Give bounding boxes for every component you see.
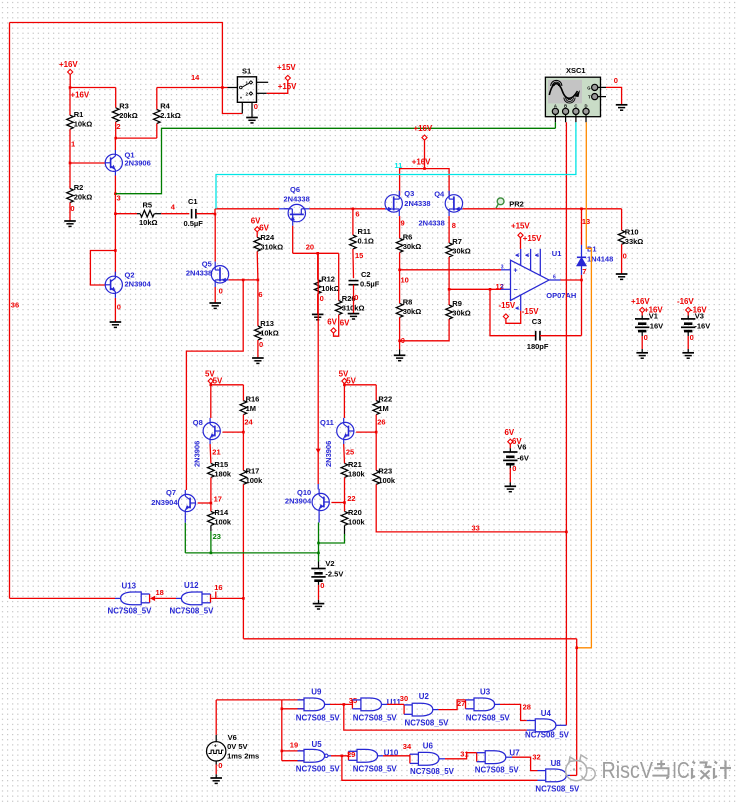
gate U4 input stubs	[527, 720, 536, 722]
resistor R13 10k	[255, 326, 262, 340]
gate U13 NC7S08 flipped	[121, 592, 142, 605]
U12 output wire	[176, 597, 181, 599]
svg-text:0: 0	[690, 333, 694, 342]
wire R22 to node 26	[375, 415, 377, 471]
wire node up to bus	[214, 209, 216, 214]
svg-text:6: 6	[355, 209, 359, 218]
scope terminal B	[563, 108, 569, 114]
svg-text:100k: 100k	[378, 476, 396, 485]
resistor R17 100k	[240, 470, 247, 484]
svg-text:XSC1: XSC1	[566, 66, 586, 75]
svg-text:NC7S00_5V: NC7S00_5V	[296, 764, 341, 773]
svg-text:3: 3	[501, 264, 504, 270]
svg-text:R17: R17	[246, 467, 260, 476]
wire R4 bottom	[156, 124, 158, 139]
ground below R13	[252, 357, 264, 359]
svg-text:+16V: +16V	[59, 60, 78, 69]
svg-text:C1: C1	[188, 197, 198, 206]
resistor R7 30k	[446, 243, 453, 257]
svg-text:14: 14	[191, 73, 200, 82]
diode D1 1N4148	[581, 209, 583, 245]
wire opamp pin2	[449, 288, 501, 290]
wire R5 to C1	[161, 213, 189, 215]
svg-text:R20: R20	[348, 508, 362, 517]
svg-text:0.5µF: 0.5µF	[184, 219, 204, 228]
svg-text:T: T	[588, 95, 591, 100]
wire Q6 source to Q3 gate bus	[310, 208, 386, 210]
wire R26 bottom to 6V hook	[334, 315, 339, 337]
wire Q6 gate down	[292, 226, 294, 254]
svg-text:Q4: Q4	[434, 189, 445, 198]
wire R8 to ground node	[399, 317, 401, 349]
wire Q1 emitter down to Q2	[114, 176, 116, 277]
svg-text:9: 9	[401, 219, 405, 228]
transistor Q3 2N4338	[385, 195, 402, 212]
svg-text:6: 6	[258, 290, 262, 299]
wire Q11 base to node 26	[356, 431, 376, 433]
svg-text:-15V: -15V	[522, 307, 539, 316]
svg-text:1ms 2ms: 1ms 2ms	[227, 751, 259, 760]
ground below V1	[636, 352, 648, 354]
svg-text:2: 2	[501, 284, 504, 290]
wire +16V to R3	[70, 87, 116, 89]
wire net 20 to R26	[338, 253, 340, 300]
svg-text:100k: 100k	[246, 476, 264, 485]
svg-text:NC7S08_5V: NC7S08_5V	[475, 765, 520, 774]
scope sine wave	[549, 84, 577, 99]
gate U5 inputs	[282, 750, 304, 752]
wire +15V to op-amp	[520, 238, 522, 249]
svg-text:0: 0	[644, 333, 648, 342]
wire node down to Q5 drain	[214, 214, 216, 262]
wire feedback top row	[344, 704, 527, 730]
svg-text:R22: R22	[378, 395, 392, 404]
transistor Q5 2N4338 mirrored	[211, 266, 228, 283]
wire V6 to gate inputs	[216, 699, 282, 701]
svg-text:180pF: 180pF	[527, 342, 549, 351]
battery V2 -2.5V	[318, 562, 320, 569]
transistor Q11 2N3906 mirrored	[337, 422, 354, 439]
svg-text:10: 10	[401, 275, 409, 284]
wire R21 to node 22	[344, 477, 346, 511]
svg-text:R13: R13	[260, 319, 274, 328]
svg-text:A: A	[554, 103, 557, 108]
svg-text:R12: R12	[321, 274, 335, 283]
scope terminal T	[592, 94, 598, 100]
svg-text:Q2: Q2	[125, 271, 135, 280]
arrow on Q10 collector wire	[316, 449, 321, 454]
transistor Q6 2N4338 rotated	[279, 208, 288, 210]
svg-text:OP07AH: OP07AH	[546, 291, 576, 300]
probe PR2	[497, 198, 504, 205]
gate U8 NC7S08	[546, 769, 567, 782]
U13 input split	[149, 594, 151, 603]
resistor R1 10k	[67, 115, 74, 129]
resistor R4 2.1k	[154, 110, 161, 124]
ground below V3	[682, 352, 694, 354]
wire V2 to ground	[318, 581, 320, 585]
svg-text:100k: 100k	[214, 518, 232, 527]
svg-text:NC7S08_5V: NC7S08_5V	[405, 719, 450, 728]
svg-text:0: 0	[259, 340, 263, 349]
resistor R12 10k	[317, 253, 319, 279]
ground below Q2	[110, 321, 122, 323]
wire net 8 Q4 source to R7	[448, 216, 450, 243]
wire output down to C3	[581, 280, 583, 336]
svg-text:16: 16	[214, 583, 222, 592]
gate U2 split	[403, 705, 405, 714]
svg-text:Q3: Q3	[404, 189, 414, 198]
svg-text:-16V: -16V	[694, 321, 710, 330]
watermark glyph yu	[653, 760, 669, 778]
wire net 20 horizontal	[293, 252, 339, 254]
wire net 9 Q3 source to R6	[399, 216, 401, 238]
wire R17 chain bottom loop	[243, 638, 576, 640]
wire V6 to ground	[215, 761, 217, 765]
svg-text:U7: U7	[509, 748, 520, 757]
svg-text:0: 0	[254, 102, 258, 111]
svg-text:R10: R10	[625, 228, 639, 237]
ground below R2	[64, 220, 76, 222]
pulse source V6	[215, 700, 217, 735]
ground below Q5	[209, 302, 221, 304]
resistor R22 1M	[375, 385, 377, 401]
watermark logo	[566, 755, 596, 781]
wire U3 out to U4	[495, 703, 500, 705]
svg-text:6V: 6V	[259, 223, 269, 232]
svg-text:10kΩ: 10kΩ	[139, 218, 158, 227]
gate U6 NC7S08	[418, 752, 439, 765]
svg-text:NC7S08_5V: NC7S08_5V	[525, 731, 570, 740]
svg-text:2N4338: 2N4338	[419, 218, 445, 227]
wire U5 out to U10	[328, 755, 331, 757]
svg-text:+15V: +15V	[278, 82, 297, 91]
S1 pin1 stub	[257, 81, 269, 83]
svg-text:2N3906: 2N3906	[324, 441, 333, 467]
wire Q11 collector to R21	[343, 444, 346, 463]
svg-text:6V: 6V	[327, 318, 337, 327]
resistor R3 20k	[112, 108, 119, 122]
gate U9 NC7S08	[282, 699, 304, 701]
wire bus to Q6	[215, 208, 279, 210]
svg-text:U12: U12	[184, 581, 199, 590]
svg-text:C: C	[574, 103, 577, 108]
wire R15 to node 17	[210, 477, 212, 511]
gate U11 NC7S08	[361, 698, 382, 711]
svg-text:0V 5V: 0V 5V	[227, 742, 247, 751]
resistor R2 20k	[67, 189, 74, 203]
scope terminal D	[583, 108, 589, 114]
wire R14 to green	[210, 525, 212, 531]
wire green rail	[185, 552, 318, 554]
svg-text:33: 33	[472, 523, 480, 532]
svg-text:V6: V6	[228, 733, 237, 742]
svg-text:C2: C2	[361, 270, 371, 279]
svg-text:NC7S08_5V: NC7S08_5V	[296, 714, 341, 723]
gate U3 NC7S08	[474, 698, 495, 711]
wire to ground	[509, 464, 511, 468]
svg-text:+16V: +16V	[71, 90, 90, 99]
svg-text:R14: R14	[214, 508, 229, 517]
wire Q5 source to ground	[214, 287, 216, 303]
svg-text:5V: 5V	[213, 376, 223, 385]
scope pin D	[585, 115, 587, 123]
svg-text:+16V: +16V	[412, 158, 431, 167]
wire scope B down to U4 output	[565, 122, 567, 725]
wire R7 to R9	[448, 257, 450, 305]
wire node to R4 bottom	[116, 137, 157, 139]
svg-text:32: 32	[532, 753, 540, 762]
svg-text:R8: R8	[403, 298, 413, 307]
svg-text:-6V: -6V	[517, 453, 529, 462]
svg-text:NC7S08_5V: NC7S08_5V	[170, 606, 215, 615]
scope G wire to ground	[598, 86, 606, 88]
svg-text:10kΩ: 10kΩ	[321, 284, 340, 293]
U13 output wire to net 36	[115, 597, 121, 599]
watermark glyph she	[692, 762, 712, 780]
transistor Q2 2N3904	[105, 276, 122, 293]
ground below R12	[312, 313, 324, 315]
svg-text:2: 2	[116, 122, 120, 131]
svg-text:10kΩ: 10kΩ	[260, 328, 279, 337]
wire net 36 left vertical	[9, 23, 11, 599]
wire Q1 base	[70, 162, 105, 164]
wire R13 to ground	[257, 340, 259, 358]
ground below 6V source	[505, 485, 517, 487]
gate U7 split	[476, 753, 478, 762]
resistor R9 30k	[446, 305, 453, 319]
svg-text:U2: U2	[419, 692, 430, 701]
svg-text:0: 0	[117, 302, 121, 311]
svg-text:-15V: -15V	[499, 301, 516, 310]
op-amp U1 OP07AH	[511, 260, 550, 300]
wire U8 output	[566, 774, 570, 776]
svg-text:IC: IC	[672, 757, 690, 783]
svg-text:180k: 180k	[214, 470, 232, 479]
resistor R24 310k	[256, 232, 258, 237]
svg-text:17: 17	[214, 495, 222, 504]
scope pin C	[575, 115, 577, 123]
wire Q4 gate from bus	[463, 208, 496, 210]
wire opamp pin3	[400, 269, 501, 271]
svg-text:20kΩ: 20kΩ	[119, 111, 138, 120]
svg-text:Q5: Q5	[202, 260, 212, 269]
wire R24 to R13	[256, 251, 259, 280]
svg-text:*: *	[240, 97, 242, 103]
svg-text:R15: R15	[214, 460, 228, 469]
wire S1 pin2 to +15V	[267, 81, 288, 94]
svg-text:8: 8	[452, 221, 456, 230]
resistor R16 1M	[242, 385, 244, 401]
wire R6 to R8	[399, 252, 401, 303]
wire R5 from emitter node	[115, 213, 137, 215]
gate U7 NC7S08	[485, 751, 506, 764]
svg-text:NC7S08_5V: NC7S08_5V	[466, 714, 511, 723]
ground below C2	[348, 313, 360, 315]
svg-text:30kΩ: 30kΩ	[403, 307, 422, 316]
svg-text:2N3904: 2N3904	[151, 498, 178, 507]
svg-text:R4: R4	[160, 101, 170, 110]
op-amp output pin	[549, 279, 561, 281]
svg-text:2: 2	[246, 92, 249, 97]
wire 5V node to R22 and Q11	[343, 384, 345, 385]
wire bus PR2 to R10 corner	[496, 208, 622, 210]
svg-text:36: 36	[11, 301, 19, 310]
wire R1 to R2 with base tap	[69, 129, 71, 188]
wire U10 out to U6	[378, 755, 383, 757]
svg-text:31: 31	[460, 749, 468, 758]
svg-text:D: D	[585, 103, 588, 108]
wire Q10 collector pin	[317, 484, 319, 489]
svg-text:2N3906: 2N3906	[125, 158, 151, 167]
svg-text:5V: 5V	[346, 376, 356, 385]
S1 bottom-right pin	[251, 102, 253, 117]
svg-text:1M: 1M	[246, 404, 256, 413]
wire C3 right	[540, 335, 582, 337]
svg-text:Q7: Q7	[166, 488, 176, 497]
wire V3 to ground	[687, 331, 689, 336]
svg-text:U4: U4	[541, 709, 552, 718]
gate U10 NC7S08	[357, 749, 378, 762]
svg-text:R7: R7	[452, 237, 462, 246]
wire R16 to node 24	[242, 415, 244, 471]
svg-text:V3: V3	[695, 312, 704, 321]
resistor R8 30k	[396, 303, 403, 317]
svg-text:R11: R11	[358, 227, 371, 236]
scope T stub	[598, 96, 606, 98]
svg-text:2N3904: 2N3904	[285, 496, 312, 505]
gate U10 split	[348, 751, 350, 760]
svg-text:27: 27	[457, 699, 465, 708]
resistor R15 180k	[208, 463, 215, 477]
svg-text:2N4338: 2N4338	[284, 194, 310, 203]
svg-text:NC7S08_5V: NC7S08_5V	[353, 714, 398, 723]
wire R8 R9 bottom link	[400, 319, 450, 341]
wire down to U8 output	[576, 639, 578, 776]
wire Q10 collector up to net 20	[317, 253, 319, 484]
wire Q5 gate to node	[229, 279, 258, 281]
svg-text:1: 1	[246, 81, 249, 86]
svg-text:30kΩ: 30kΩ	[452, 309, 471, 318]
svg-text:R9: R9	[452, 299, 462, 308]
resistor R26 310k	[335, 301, 342, 315]
svg-text:33kΩ: 33kΩ	[625, 237, 644, 246]
svg-text:20kΩ: 20kΩ	[74, 193, 93, 202]
svg-text:NC7S08_5V: NC7S08_5V	[535, 784, 580, 793]
wire Q1 collector	[114, 138, 116, 150]
wire U6 out to U7	[439, 758, 445, 760]
wire cyan scope C	[216, 122, 576, 209]
ground below S1	[246, 117, 258, 119]
arrow into U13 inputs	[150, 596, 155, 601]
gate U11 split	[351, 700, 353, 709]
svg-text:U3: U3	[480, 688, 491, 697]
wire -15V hook	[506, 311, 521, 323]
resistor R11 0.1ohm	[352, 209, 354, 235]
svg-text:NC7S08_5V: NC7S08_5V	[410, 767, 455, 776]
scope pin A	[554, 115, 556, 123]
svg-text:Q11: Q11	[320, 418, 334, 427]
svg-text:2N3904: 2N3904	[125, 280, 152, 289]
wire Q2 base jog	[90, 251, 115, 286]
wire U4 output	[556, 724, 567, 726]
S1 pin2 stub	[257, 92, 267, 94]
svg-text:7: 7	[582, 267, 586, 276]
svg-text:R16: R16	[246, 395, 260, 404]
svg-text:16V: 16V	[650, 321, 663, 330]
wire R11 to C2	[352, 249, 355, 278]
svg-text:-2.5V: -2.5V	[325, 570, 343, 579]
svg-text:2N3906: 2N3906	[193, 441, 202, 467]
wire Q8 collector to R15	[209, 444, 212, 463]
transistor Q8 2N3906 mirrored	[203, 422, 220, 439]
svg-text:+16V: +16V	[414, 124, 433, 133]
svg-text:U1: U1	[552, 249, 562, 258]
wire Q7 emitter green	[184, 516, 186, 523]
battery V3 -16V	[687, 313, 689, 316]
svg-text:0: 0	[219, 286, 223, 295]
svg-text:0: 0	[70, 204, 74, 213]
svg-text:+15V: +15V	[511, 221, 530, 230]
wire R10 to ground	[621, 244, 623, 274]
svg-text:0: 0	[218, 761, 222, 770]
svg-text:0: 0	[354, 293, 358, 302]
svg-text:11: 11	[394, 161, 402, 170]
svg-text:NC7S08_5V: NC7S08_5V	[353, 764, 398, 773]
wire 5V node to R16 and Q8	[210, 384, 212, 385]
wire C3 to pin2 node	[490, 289, 536, 335]
S1 bottom-left pin	[241, 102, 243, 113]
wire R2 to ground	[69, 203, 71, 222]
svg-text:0: 0	[320, 581, 324, 590]
ground below V2	[313, 603, 325, 605]
wire op-amp output to node 7	[561, 279, 582, 281]
svg-text:B: B	[564, 103, 567, 108]
svg-text:20: 20	[306, 243, 314, 252]
svg-text:R21: R21	[348, 460, 362, 469]
wire +16V to Q3 Q4 drains	[400, 169, 450, 196]
wire Q2 emitter to ground	[114, 298, 116, 322]
wire U9 out to U11	[325, 703, 330, 705]
capacitor C1 0.5uF	[191, 209, 193, 219]
wire green A-channel from emitter node	[115, 128, 555, 193]
capacitor C3 180pF	[535, 331, 537, 341]
op-amp input pins	[501, 269, 511, 271]
ground below V6 pulse	[210, 777, 222, 779]
svg-text:2.1kΩ: 2.1kΩ	[160, 111, 181, 120]
transistor Q7 2N3904	[178, 494, 195, 511]
svg-text:S1: S1	[242, 67, 251, 76]
net 16 label stub	[215, 592, 217, 599]
wire input rail vertical	[281, 700, 283, 761]
svg-text:30kΩ: 30kΩ	[403, 242, 422, 251]
svg-text:U8: U8	[551, 759, 562, 768]
wire R4 top	[156, 88, 158, 110]
svg-text:6V: 6V	[340, 318, 350, 327]
gate U12 NC7S08 flipped	[181, 592, 202, 605]
svg-text:R23: R23	[378, 467, 392, 476]
svg-text:U5: U5	[312, 740, 323, 749]
svg-text:+: +	[214, 743, 217, 749]
svg-text:0.1Ω: 0.1Ω	[358, 237, 374, 246]
op-amp top pins	[520, 249, 522, 266]
resistor R21 180k	[341, 463, 348, 477]
svg-text:310kΩ: 310kΩ	[260, 243, 283, 252]
wire Q7 base	[198, 502, 211, 504]
svg-text:100k: 100k	[348, 517, 366, 526]
wire R3 bottom to node	[115, 122, 117, 138]
scope terminal G	[592, 84, 598, 90]
